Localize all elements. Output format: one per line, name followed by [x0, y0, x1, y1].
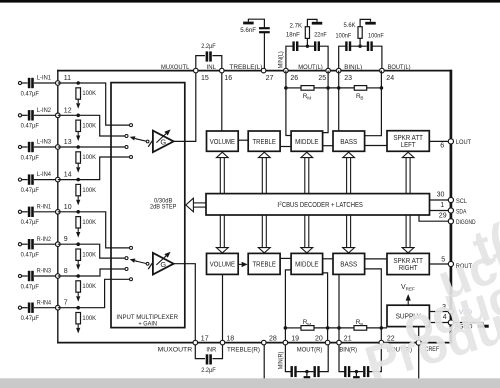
pin 5 ROUT — [429, 257, 472, 270]
svg-text:17: 17 — [201, 335, 209, 342]
wire pin13 to mux contact 3 — [58, 146, 125, 148]
svg-text:MOUT(R): MOUT(R) — [297, 346, 323, 353]
svg-text:M: M — [307, 322, 311, 327]
mux selector contact 6 — [125, 257, 128, 260]
svg-text:7: 7 — [64, 300, 68, 307]
svg-text:R-IN4: R-IN4 — [37, 299, 51, 306]
100K input resistor for L-IN1 — [76, 81, 97, 109]
pin 16 INL top edge — [207, 64, 233, 82]
svg-text:BASS: BASS — [340, 260, 357, 269]
svg-text:+ GAIN: + GAIN — [138, 321, 157, 328]
100K input resistor for L-IN2 — [76, 114, 97, 142]
wire MOUT(L) into MIDDLE — [323, 88, 329, 133]
svg-text:25: 25 — [318, 75, 326, 82]
svg-text:LEFT: LEFT — [401, 140, 416, 149]
100K input resistor for R-IN4 — [76, 306, 97, 334]
svg-text:L-IN1: L-IN1 — [37, 75, 51, 82]
svg-text:G: G — [160, 260, 166, 269]
block MIDDLE right — [291, 253, 323, 274]
svg-text:TREBLE: TREBLE — [252, 260, 276, 269]
mux selector contact 2 — [125, 135, 128, 138]
svg-text:RIGHT: RIGHT — [399, 263, 418, 272]
svg-text:BOUT(L): BOUT(L) — [388, 64, 411, 71]
svg-text:0.47µF: 0.47µF — [21, 123, 39, 130]
VREF arrow — [401, 284, 415, 305]
svg-text:SDA: SDA — [456, 209, 467, 216]
wire BOUT(R) pin 22 into BASS right — [365, 269, 382, 343]
svg-text:R-IN2: R-IN2 — [37, 236, 51, 243]
top black bar — [0, 0, 500, 3]
svg-text:MIN(L): MIN(L) — [278, 51, 285, 68]
pin 23 BIN(L) top edge — [336, 64, 362, 82]
control bus arrow down at x=222.3 — [216, 215, 228, 253]
wire VOLUME to TREBLE left — [238, 139, 248, 141]
svg-text:B: B — [360, 322, 363, 327]
svg-text:14: 14 — [64, 172, 72, 179]
block VOLUME right — [207, 253, 239, 274]
svg-text:R-IN3: R-IN3 — [37, 268, 51, 275]
mux selector contact 7 — [125, 268, 128, 271]
svg-text:20: 20 — [315, 335, 323, 342]
input R-IN1 coupling capacitor 0.47uF and pin 10 — [18, 203, 71, 226]
svg-text:23: 23 — [344, 75, 352, 82]
wire pin12 to mux contact 2 — [58, 115, 125, 136]
block SUPPLY — [387, 305, 429, 326]
wire TREBLE to MIDDLE right — [280, 257, 291, 259]
svg-text:19: 19 — [291, 335, 299, 342]
wire BIN(L) into BASS top — [338, 88, 340, 131]
svg-text:0.47µF: 0.47µF — [21, 219, 39, 226]
svg-text:28: 28 — [269, 335, 277, 342]
svg-text:11: 11 — [64, 75, 71, 82]
wire INR pin 18 to VOLUME right — [222, 274, 224, 342]
svg-text:TREBLE: TREBLE — [252, 137, 276, 146]
svg-text:10: 10 — [64, 204, 72, 211]
svg-text:G: G — [160, 138, 166, 147]
svg-text:0.47µF: 0.47µF — [21, 252, 39, 259]
input L-IN4 coupling capacitor 0.47uF and pin 14 — [18, 171, 71, 194]
wire pin7 to mux contact 8 — [58, 279, 130, 307]
svg-text:VOLUME: VOLUME — [210, 260, 235, 269]
pin 1 SDA — [430, 202, 467, 215]
capacitor 5.6nF wire on TREBLE(R) cut at page edge — [263, 345, 265, 379]
svg-text:INL: INL — [207, 64, 217, 71]
svg-text:0.47µF: 0.47µF — [21, 283, 39, 290]
control bus arrow up at x=222.3 — [216, 152, 228, 193]
control bus arrow down at x=306.8 — [301, 215, 313, 253]
pin 28 TREBLE(R) bottom edge — [227, 335, 277, 353]
svg-text:100K: 100K — [82, 154, 96, 161]
mux selector contact 4 — [130, 156, 133, 159]
svg-text:100K: 100K — [82, 123, 96, 130]
svg-text:MIDDLE: MIDDLE — [295, 260, 319, 269]
svg-text:I2CBUS DECODER + LATCHES: I2CBUS DECODER + LATCHES — [277, 201, 363, 209]
input R-IN3 coupling capacitor 0.47uF and pin 8 — [18, 268, 67, 291]
svg-text:100K: 100K — [82, 90, 96, 97]
op-amp G left-channel gain stage — [130, 129, 174, 152]
pin 6 LOUT — [429, 139, 471, 150]
svg-text:29: 29 — [439, 213, 447, 220]
svg-text:5.6nF: 5.6nF — [240, 27, 256, 34]
input multiplexer + gain box U-MUX — [111, 83, 185, 328]
svg-text:100nF: 100nF — [368, 32, 384, 39]
middle-left external network 2.7K 18nF 22nF — [286, 19, 328, 68]
wire pin11 to mux contact 1 — [58, 83, 130, 125]
wire MIDDLE to BASS right — [323, 258, 333, 260]
wire INL pin 16 to VOLUME left — [221, 71, 223, 131]
wire MIDDLE to BASS left — [323, 145, 333, 147]
pin 2 CREF — [413, 327, 439, 379]
pin 21 BIN(R) bottom edge — [337, 335, 357, 353]
pin 27 TREBLE(L) top edge — [229, 64, 273, 82]
mux selector contact 5 — [130, 246, 133, 249]
svg-text:5.6K: 5.6K — [344, 22, 357, 29]
svg-text:TREBLE(R): TREBLE(R) — [227, 346, 260, 353]
svg-text:8: 8 — [64, 268, 68, 275]
capacitor 2.2uF between MUXOUTR and INR — [195, 345, 222, 374]
svg-text:MIN(R): MIN(R) — [277, 352, 284, 370]
svg-text:9: 9 — [64, 236, 68, 243]
mux selector contact 1 — [130, 124, 133, 127]
svg-text:18nF: 18nF — [286, 32, 300, 39]
wire MOUT(R) pin 20 into MIDDLE right-channel — [323, 273, 328, 343]
capacitor 5.6nF on TREBLE(L) with supply rail — [240, 19, 270, 68]
block VOLUME left — [207, 131, 239, 151]
svg-text:2dB STEP: 2dB STEP — [150, 204, 177, 211]
pin 15 MUXOUTL top edge — [161, 64, 209, 82]
wire G-left output to MUXOUTL pin 15 — [174, 71, 196, 142]
svg-text:B: B — [360, 96, 363, 101]
svg-text:100K: 100K — [82, 315, 96, 322]
pin 22 BOUT(R) bottom edge — [379, 335, 412, 353]
svg-text:L-IN4: L-IN4 — [37, 171, 51, 178]
pin 19 MIN(R) bottom edge — [283, 335, 299, 345]
bass-right external network capacitors — [339, 345, 381, 377]
100K input resistor for R-IN3 — [76, 274, 97, 302]
svg-text:18: 18 — [226, 335, 234, 342]
svg-text:12: 12 — [64, 107, 72, 114]
control bus arrow up at x=348.6 — [343, 152, 355, 193]
svg-text:13: 13 — [64, 139, 72, 146]
wire pin14 to mux contact 4 — [58, 157, 130, 180]
svg-text:BIN(L): BIN(L) — [344, 64, 362, 71]
control bus arrow left into mux (0/30dB 2dB STEP) — [150, 198, 206, 212]
input L-IN1 coupling capacitor 0.47uF and pin 11 — [18, 75, 71, 98]
block BASS left — [333, 131, 365, 151]
pin 25 MOUT(L) top edge — [298, 64, 330, 82]
block MIDDLE left — [291, 131, 323, 151]
svg-text:1: 1 — [440, 202, 444, 209]
svg-text:L-IN3: L-IN3 — [37, 139, 51, 146]
svg-text:100nF: 100nF — [336, 32, 352, 39]
svg-text:TREBLE(L): TREBLE(L) — [229, 64, 262, 71]
svg-text:2.2µF: 2.2µF — [201, 367, 216, 374]
pin 30 SCL — [430, 192, 468, 206]
svg-text:MIDDLE: MIDDLE — [295, 137, 319, 146]
svg-text:2.7K: 2.7K — [290, 22, 303, 29]
wire pin9 to mux contact 6 — [58, 244, 125, 258]
bottom gray bar overlay — [0, 378, 500, 388]
pin 3 VDD — [429, 304, 472, 316]
svg-text:0.47µF: 0.47µF — [21, 90, 39, 97]
block BASS right — [333, 253, 365, 274]
svg-text:27: 27 — [266, 75, 274, 82]
input R-IN2 coupling capacitor 0.47uF and pin 9 — [18, 236, 67, 259]
svg-text:100K: 100K — [82, 283, 96, 290]
svg-text:24: 24 — [386, 75, 394, 82]
mux selector contact 8 — [130, 278, 133, 281]
svg-text:M: M — [307, 96, 311, 101]
internal rail with RM RB (left channel) — [284, 71, 383, 101]
svg-text:MOUT(L): MOUT(L) — [298, 64, 323, 71]
svg-text:100K: 100K — [82, 219, 96, 226]
input L-IN2 coupling capacitor 0.47uF and pin 12 — [18, 107, 71, 130]
svg-text:15: 15 — [201, 75, 209, 82]
wire BOUT(L) into BASS right — [365, 88, 382, 136]
control bus arrow down at x=348.6 — [343, 215, 355, 253]
svg-text:21: 21 — [344, 335, 352, 342]
svg-text:BASS: BASS — [340, 137, 357, 146]
pin 20 MOUT(R) bottom edge — [297, 335, 330, 353]
wire TREBLE to MIDDLE left — [280, 146, 291, 148]
svg-text:22nF: 22nF — [314, 32, 327, 39]
control bus arrow down at x=408.1 — [402, 215, 414, 253]
svg-text:0.47µF: 0.47µF — [21, 315, 39, 322]
wire MIN(R) pin 19 into MIDDLE right-channel — [285, 270, 291, 343]
pin 24 BOUT(L) top edge — [380, 64, 411, 82]
wire BASS to SPKR ATT RIGHT — [365, 258, 387, 260]
svg-text:MUXOUTL: MUXOUTL — [161, 64, 190, 71]
svg-text:6: 6 — [440, 143, 444, 150]
wire pin8 to mux contact 7 — [58, 269, 125, 276]
capacitor 2.2uF between MUXOUTL and INL — [196, 43, 222, 68]
svg-text:0.47µF: 0.47µF — [21, 187, 39, 194]
input L-IN3 coupling capacitor 0.47uF and pin 13 — [18, 139, 71, 162]
100K input resistor for R-IN2 — [76, 242, 97, 270]
svg-text:VOLUME: VOLUME — [210, 137, 235, 146]
pin 29 DIGGND — [419, 213, 476, 227]
svg-text:SCL: SCL — [456, 198, 467, 205]
control bus arrow up at x=408.1 — [402, 152, 414, 193]
wire VOLUME to TREBLE right with arrow — [238, 262, 247, 267]
pin 18 INR bottom edge — [206, 335, 234, 353]
block TREBLE right — [248, 253, 280, 274]
svg-text:L-IN2: L-IN2 — [37, 107, 51, 114]
op-amp G right-channel gain stage — [130, 252, 174, 275]
mux selector contact 3 — [125, 146, 128, 149]
bottom gray bar — [0, 378, 500, 388]
wire pin10 to mux contact 5 — [58, 212, 130, 248]
I2C bus decoder + latches block — [206, 194, 430, 215]
100K input resistor for L-IN3 — [76, 145, 97, 173]
pin 26 MIN(L) top edge — [284, 68, 299, 82]
svg-text:LOUT: LOUT — [456, 139, 471, 146]
pin 4 AGND with ground — [429, 314, 488, 331]
svg-text:R-IN1: R-IN1 — [37, 203, 51, 210]
svg-text:2.2µF: 2.2µF — [201, 43, 216, 50]
wire BIN(R) pin 21 into BASS bottom — [338, 274, 340, 342]
bass-left external network 5.6K 100nF 100nF — [336, 19, 384, 68]
wire G-right output to MUXOUTR pin 17 — [174, 264, 196, 343]
block TREBLE left — [248, 131, 280, 151]
block SPKR ATT LEFT — [387, 131, 429, 152]
wire BASS to SPKR ATT LEFT — [365, 145, 387, 147]
svg-text:30: 30 — [437, 192, 445, 199]
IC outer boundary — [57, 70, 452, 344]
svg-text:26: 26 — [290, 75, 298, 82]
control bus arrow up at x=264.3 — [258, 152, 270, 193]
middle-right external network capacitors — [285, 345, 328, 377]
internal rail with RM RB (right channel) — [284, 319, 387, 330]
svg-text:INR: INR — [206, 346, 216, 353]
svg-text:100K: 100K — [82, 187, 96, 194]
control bus arrow down at x=264.3 — [258, 215, 270, 253]
svg-text:100K: 100K — [82, 251, 96, 258]
input R-IN4 coupling capacitor 0.47uF and pin 7 — [18, 299, 67, 322]
pin 17 MUXOUTR bottom edge — [158, 335, 209, 353]
svg-text:BIN(R): BIN(R) — [339, 346, 357, 353]
control bus arrow up at x=306.8 — [301, 152, 313, 193]
svg-text:16: 16 — [224, 75, 232, 82]
wire MIN(L) into MIDDLE — [286, 88, 291, 136]
svg-text:MUXOUTR: MUXOUTR — [158, 346, 193, 353]
100K input resistor for R-IN1 — [76, 210, 97, 238]
block SPKR ATT RIGHT — [387, 253, 429, 274]
svg-text:0.47µF: 0.47µF — [21, 154, 39, 161]
100K input resistor for L-IN4 — [76, 178, 97, 206]
